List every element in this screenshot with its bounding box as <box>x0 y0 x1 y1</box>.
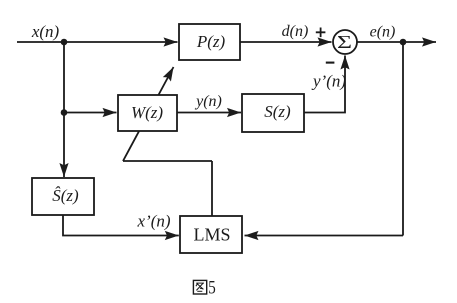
block LMS <box>180 216 242 253</box>
wire summer output e(n) <box>357 41 436 43</box>
wire S(z) output up to summer <box>304 56 345 113</box>
wire x(n) input line <box>17 41 178 43</box>
svg-text:y’(n): y’(n) <box>311 72 346 91</box>
wire LMS to W(z) diagonal update arrow <box>123 67 174 161</box>
svg-text:e(n): e(n) <box>370 24 396 41</box>
wire S-hat output to LMS <box>63 215 179 236</box>
wire e(n) feedback down <box>402 42 404 236</box>
svg-text:5: 5 <box>208 278 216 299</box>
wire feedback into LMS right side <box>245 235 404 237</box>
node junction dot at W(z) branch <box>61 109 68 116</box>
svg-text:Σ: Σ <box>337 32 352 52</box>
caption figure 5 glyph TU (vector) <box>193 280 206 294</box>
svg-text:P(z): P(z) <box>196 32 226 51</box>
svg-text:y(n): y(n) <box>194 93 222 110</box>
wire vertical from x(n) junction down to S-hat <box>63 42 65 177</box>
svg-text:x(n): x(n) <box>31 22 60 41</box>
node junction dot on x(n) line <box>61 39 68 46</box>
wire W(z) output y(n) to S(z) <box>177 112 241 114</box>
svg-text:d(n): d(n) <box>282 23 309 40</box>
wire P(z) output to summer <box>240 41 332 43</box>
svg-text:Ŝ(z): Ŝ(z) <box>52 186 79 205</box>
svg-text:S(z): S(z) <box>264 102 291 121</box>
svg-text:LMS: LMS <box>193 225 230 245</box>
block W(z) <box>118 95 177 131</box>
block S(z) <box>242 94 304 132</box>
block P(z) <box>179 24 240 60</box>
svg-text:x’(n): x’(n) <box>136 212 170 231</box>
block S-hat(z) <box>32 178 94 215</box>
wire corner horizontal to diagonal start <box>123 160 212 162</box>
label minus sign <box>326 62 335 64</box>
svg-text:W(z): W(z) <box>131 103 163 122</box>
label plus sign <box>316 28 326 38</box>
wire branch to W(z) <box>64 112 117 114</box>
node junction dot on e(n) line <box>400 39 407 46</box>
summer circle <box>333 30 357 54</box>
wire LMS top to corner <box>211 161 213 216</box>
